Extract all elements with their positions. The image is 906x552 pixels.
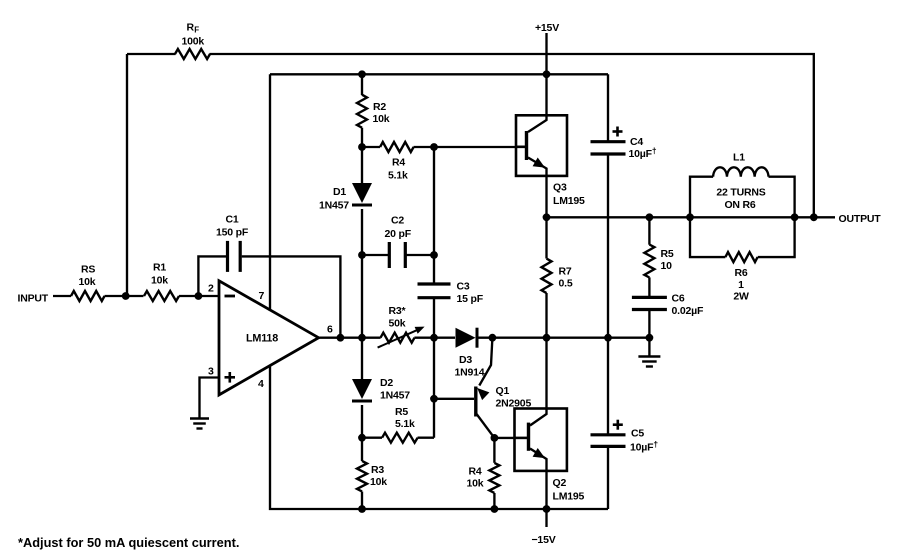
svg-text:15 pF: 15 pF [457, 293, 484, 305]
svg-text:R4: R4 [392, 157, 405, 169]
svg-text:LM118: LM118 [246, 333, 278, 345]
svg-text:ON R6: ON R6 [724, 199, 755, 211]
svg-text:C1: C1 [226, 213, 239, 225]
svg-text:C2: C2 [391, 214, 404, 226]
svg-text:50k: 50k [389, 317, 406, 329]
svg-text:6: 6 [327, 324, 333, 336]
svg-text:0.5: 0.5 [559, 277, 573, 289]
svg-text:C4: C4 [630, 136, 643, 148]
svg-text:−15V: −15V [532, 534, 556, 546]
svg-text:10k: 10k [370, 476, 387, 488]
svg-text:10k: 10k [373, 113, 390, 125]
svg-text:R3*: R3* [389, 305, 407, 317]
svg-text:Q2: Q2 [553, 477, 567, 489]
svg-text:D2: D2 [380, 377, 393, 389]
svg-text:Q1: Q1 [496, 385, 510, 397]
svg-text:10k: 10k [467, 478, 484, 490]
svg-text:R3: R3 [371, 464, 384, 476]
svg-text:C3: C3 [457, 281, 470, 293]
svg-text:D3: D3 [459, 354, 472, 366]
svg-text:0.02µF: 0.02µF [672, 305, 704, 317]
svg-text:1: 1 [738, 279, 744, 291]
svg-text:L1: L1 [733, 151, 745, 163]
svg-text:5.1k: 5.1k [395, 418, 415, 430]
svg-text:R1: R1 [153, 262, 166, 274]
svg-text:1N914: 1N914 [455, 366, 485, 378]
svg-text:F: F [194, 26, 199, 35]
svg-text:1N457: 1N457 [319, 199, 349, 211]
svg-text:22 TURNS: 22 TURNS [716, 187, 765, 199]
svg-text:7: 7 [259, 290, 265, 302]
svg-text:100k: 100k [182, 35, 205, 47]
svg-text:2W: 2W [733, 290, 749, 302]
svg-text:LM195: LM195 [553, 490, 585, 502]
svg-text:R6: R6 [734, 267, 747, 279]
svg-text:5.1k: 5.1k [388, 170, 408, 182]
svg-text:2: 2 [208, 283, 214, 295]
svg-text:+15V: +15V [535, 22, 559, 34]
svg-text:10k: 10k [151, 275, 168, 287]
svg-text:4: 4 [258, 378, 264, 390]
svg-text:RS: RS [81, 264, 95, 276]
svg-text:INPUT: INPUT [18, 293, 49, 305]
svg-text:Q3: Q3 [553, 182, 567, 194]
svg-text:1N457: 1N457 [380, 390, 410, 402]
svg-text:2N2905: 2N2905 [496, 398, 532, 410]
svg-text:3: 3 [208, 365, 214, 377]
svg-text:LM195: LM195 [553, 195, 585, 207]
svg-text:10: 10 [661, 260, 673, 272]
svg-text:R2: R2 [373, 101, 386, 113]
svg-text:20 pF: 20 pF [385, 228, 412, 240]
svg-text:R5: R5 [661, 248, 674, 260]
svg-text:*Adjust for 50 mA quiescent cu: *Adjust for 50 mA quiescent current. [18, 535, 239, 550]
svg-text:R5: R5 [395, 406, 408, 418]
svg-text:D1: D1 [333, 186, 346, 198]
svg-text:R7: R7 [559, 265, 572, 277]
svg-text:10k: 10k [79, 276, 96, 288]
svg-text:R4: R4 [469, 466, 482, 478]
svg-text:150 pF: 150 pF [216, 227, 249, 239]
svg-text:C6: C6 [672, 292, 685, 304]
svg-text:OUTPUT: OUTPUT [839, 213, 882, 225]
svg-text:C5: C5 [631, 427, 644, 439]
